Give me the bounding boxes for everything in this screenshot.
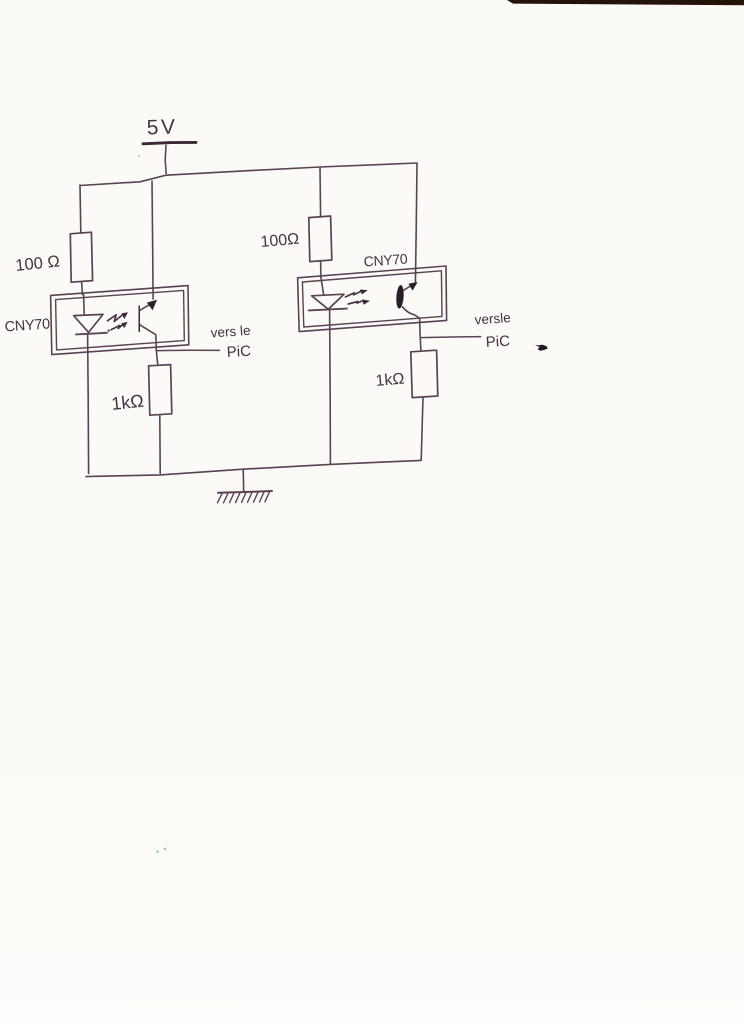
- svg-text:100Ω: 100Ω: [260, 231, 300, 251]
- svg-text:vers le: vers le: [210, 323, 251, 341]
- svg-text:PiC: PiC: [485, 333, 510, 351]
- svg-text:CNY70: CNY70: [4, 316, 50, 335]
- svg-text:1kΩ: 1kΩ: [375, 371, 405, 390]
- svg-text:CNY70: CNY70: [363, 250, 408, 269]
- svg-text:5V: 5V: [146, 115, 178, 139]
- svg-text:PiC: PiC: [226, 343, 251, 361]
- svg-text:versle: versle: [474, 310, 511, 327]
- svg-text:1kΩ: 1kΩ: [110, 391, 144, 414]
